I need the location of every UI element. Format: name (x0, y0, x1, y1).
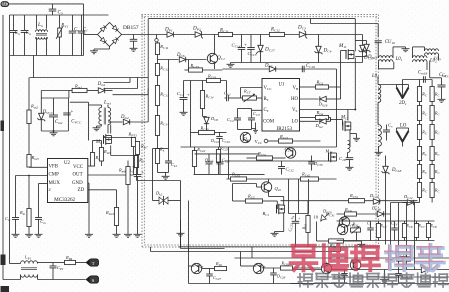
wire GND pin (88, 183, 89, 232)
wire filter to bridge (84, 34, 98, 36)
resistor Rc21 (268, 134, 321, 143)
wire bus 258 (235, 247, 449, 258)
rectifier 2D1 (397, 85, 409, 107)
capacitor CU16 (375, 40, 396, 58)
wire vert 228 (228, 147, 230, 179)
wire corner down (181, 220, 225, 267)
ground bridge (90, 47, 110, 54)
wire bus 146 (181, 146, 337, 148)
svg-text:CVCC: CVCC (71, 120, 82, 125)
capacitor C27 (206, 269, 221, 284)
watermark red text (291, 245, 379, 270)
svg-text:Dm2: Dm2 (120, 115, 129, 120)
capacitor Cvcc (63, 110, 82, 125)
wire bus y68 (223, 69, 337, 147)
svg-text:GND: GND (72, 181, 83, 186)
svg-text:2: 2 (49, 187, 51, 192)
wire bottom bus 251 (151, 247, 341, 252)
capacitor Cm5 (130, 142, 148, 238)
wire column top (403, 76, 433, 98)
wire CT (238, 109, 263, 130)
diode Dc7 (203, 109, 219, 133)
wire bottom mid 283 (189, 266, 337, 284)
resistor RC31 (247, 151, 286, 160)
rectifier LO2 (397, 124, 409, 147)
wire ZD pin (88, 190, 117, 208)
capacitor Cc16 (302, 64, 315, 72)
wire VS (300, 110, 356, 121)
diode Dm2 (108, 115, 148, 125)
svg-text:Cm2: Cm2 (55, 120, 63, 125)
capacitor C1 (78, 15, 88, 56)
diode DG2 (300, 118, 343, 130)
diode Dc19 (369, 193, 380, 204)
svg-text:LO: LO (292, 119, 299, 124)
choke L02 output (378, 103, 381, 147)
wire filter top rail (10, 14, 109, 16)
resistor Rzd (105, 208, 121, 238)
svg-text:VCC: VCC (73, 165, 83, 170)
svg-text:CU16: CU16 (385, 40, 395, 45)
resistor Rc51 (349, 193, 365, 203)
resistor Rk box (153, 147, 178, 201)
wire HV rail (148, 18, 355, 20)
winding aux right (339, 141, 354, 171)
diode Dc5 (264, 63, 276, 71)
wire AC line top (9, 3, 84, 5)
resistor RPA (53, 255, 87, 265)
connector T1 (86, 259, 99, 266)
svg-text:M12: M12 (340, 115, 349, 120)
resistor Rc12 (269, 28, 284, 37)
transistor Qc2 (240, 132, 250, 142)
svg-text:COM: COM (263, 119, 275, 124)
svg-text:DC5: DC5 (264, 63, 273, 68)
zener Dc13 (359, 35, 374, 63)
svg-text:U1: U1 (279, 83, 285, 88)
ground vcc box (50, 130, 58, 136)
resistor Rc16 (207, 74, 221, 83)
wire vert 218b (218, 147, 220, 174)
watermark gray slogan (298, 273, 448, 287)
wires vertical fence (391, 203, 415, 270)
wire vert 180 (137, 181, 185, 247)
wire vert 188 (188, 201, 190, 252)
capacitor Ccc top right (442, 73, 449, 79)
svg-text:2D1: 2D1 (399, 101, 407, 106)
svg-text:DC6: DC6 (176, 53, 185, 58)
capacitor Dc26 (204, 154, 214, 175)
resistor RG2 (300, 110, 331, 121)
choke Ln (36, 15, 48, 56)
svg-text:Cm18: Cm18 (418, 70, 427, 75)
mosfet M13 (325, 149, 337, 163)
wire left edge 2 (9, 56, 11, 264)
ground M12 (350, 134, 360, 142)
resistor RG1 (300, 79, 341, 89)
svg-text:HO: HO (291, 97, 299, 102)
mosfet M12 (340, 109, 356, 148)
diode Dc6 (158, 53, 207, 62)
diode Dc16 (371, 206, 384, 217)
wire y80 (184, 81, 227, 95)
svg-text:MUX: MUX (49, 181, 61, 186)
svg-text:RV1: RV1 (60, 24, 68, 29)
output terminal block (289, 179, 319, 222)
svg-text:S: S (92, 278, 95, 283)
svg-text:Cn: Cn (15, 31, 20, 36)
diode Dp2 (192, 25, 203, 38)
watermark blue outline text (385, 244, 444, 270)
wire bus 200 (281, 200, 418, 202)
svg-text:ZD: ZD (78, 188, 85, 193)
mosfet B1 (263, 204, 285, 217)
wire corner 3 (113, 89, 149, 95)
wire vcc mid (41, 91, 69, 99)
mark bottom left corner (1, 286, 10, 292)
svg-text:L01: L01 (395, 57, 403, 62)
wire bus 213 (337, 213, 391, 215)
resistor RC42 (301, 172, 319, 182)
svg-text:VFB: VFB (49, 164, 59, 169)
wire bus 2205 (337, 220, 435, 222)
ground bottom right (380, 270, 389, 283)
wire vcc2 top (195, 153, 259, 155)
mosfet M1 PFC (95, 125, 137, 156)
zener Dc20 (321, 209, 332, 222)
capacitor Cc41 (338, 270, 348, 284)
ground B1 (269, 197, 284, 237)
capacitor Cc22 (288, 214, 300, 247)
svg-text:DVCC: DVCC (42, 110, 54, 115)
transformer Lm (89, 100, 112, 134)
svg-text:VS: VS (292, 108, 298, 113)
capacitor C3 (49, 4, 63, 15)
terminal Vcc2 (255, 139, 268, 145)
capacitor Cn1 (10, 15, 20, 56)
ground middle (227, 63, 235, 68)
wire HV rail drop (147, 19, 149, 122)
ground U1 (252, 123, 259, 134)
transistor Q21 (285, 147, 296, 159)
optocoupler K1 (337, 223, 348, 235)
capacitor Cc1 left (224, 90, 243, 101)
capacitor Cc12 (278, 161, 294, 175)
capacitor Cc14 (232, 35, 248, 63)
svg-text:C1: C1 (83, 28, 88, 33)
connector AC input (1, 2, 9, 7)
wire vcc top (30, 77, 149, 79)
resistor R27 (263, 261, 321, 271)
wire vcc to transformer (70, 102, 89, 140)
capacitor Cc27 (217, 154, 231, 175)
resistor R32 (376, 221, 386, 241)
bridge rectifier DB157 (98, 23, 139, 47)
transistor Q27 (321, 261, 331, 274)
diode Dp1 (164, 27, 173, 38)
zener Dc15 (355, 41, 377, 61)
resistor column B (430, 80, 440, 203)
wire filter left edge (9, 15, 11, 56)
diode DG1 (300, 96, 341, 107)
wire MUX (39, 184, 48, 218)
wire right drop to filter (83, 4, 85, 15)
pot Rt (243, 89, 263, 103)
resistor Rvcc1 (88, 141, 103, 167)
wire bus 178 (227, 178, 337, 180)
mosfet M11 (338, 19, 355, 110)
transformer LP1 (3, 255, 38, 280)
svg-text:Cn: Cn (26, 31, 31, 36)
capacitor Cp1 (38, 263, 64, 280)
varistor Rv1 (56, 15, 68, 56)
svg-text:+: + (141, 170, 144, 175)
resistor Rm1 (69, 84, 99, 93)
resistor Rc13 (155, 76, 169, 106)
resistor Rm6 (118, 161, 132, 238)
svg-text:CC16: CC16 (306, 64, 315, 69)
zener Dc18 (382, 156, 402, 245)
wire left edge long (2, 15, 4, 280)
wire OUT to gate (88, 174, 134, 176)
resistor Rc22 (192, 147, 205, 174)
capacitor Cn3 (69, 15, 79, 56)
resistor Rsense (134, 156, 144, 181)
svg-text:+: + (71, 110, 74, 115)
transistor Q23 (339, 217, 349, 228)
ground GND pin (85, 233, 93, 238)
vcc box (41, 98, 68, 131)
capacitor Cmux (35, 218, 47, 238)
wire vert 190 (190, 81, 192, 148)
node circle start (155, 35, 158, 42)
zener Dc4 (315, 35, 332, 63)
transistor Q24 (350, 259, 360, 271)
wire bus 276 (321, 276, 449, 278)
resistor R01 (302, 201, 311, 247)
mark left edge 1 (1, 121, 5, 132)
diode Dm1 (97, 82, 113, 93)
capacitor Cc19 (210, 133, 230, 148)
resistor Rc11b (155, 55, 169, 76)
zener Dvcc (37, 110, 53, 121)
svg-text:+: + (187, 92, 190, 97)
svg-text:+: + (292, 214, 295, 219)
transformer T1 secondary A (413, 47, 438, 70)
diac Dk (153, 191, 181, 206)
capacitor Cc15 (247, 35, 256, 63)
pot R31 (351, 222, 361, 234)
ground transformer center (402, 47, 410, 52)
capacitor Cm18 (418, 61, 447, 103)
resistor Rc55 (397, 252, 411, 262)
ground transformer Lm (93, 126, 101, 131)
wire vcc2 bottom (194, 173, 265, 175)
transistor Q22 (261, 179, 281, 197)
ground output mid (375, 147, 383, 156)
svg-text:RC11: RC11 (219, 29, 229, 34)
IC U2 MC33262 (48, 159, 88, 203)
wire Vcc pin U1 (241, 88, 263, 99)
wire chain bottom (157, 136, 159, 149)
wire filter bottom rail (10, 55, 84, 57)
wire CMP (16, 175, 48, 218)
resistor divider R2 (27, 124, 39, 168)
svg-text:MC33262: MC33262 (54, 197, 75, 203)
wire vert 168 (168, 60, 170, 149)
capacitor bridge output (130, 35, 138, 52)
capacitor C28 (270, 268, 285, 284)
capacitor Cc2 (227, 109, 241, 130)
terminal HCC (349, 223, 359, 232)
svg-text:T: T (92, 261, 95, 266)
svg-text:AC: AC (2, 2, 8, 7)
capacitor Cs1 (383, 123, 393, 141)
resistor Rc14 (155, 106, 169, 136)
resistor Rc18 (191, 126, 227, 135)
svg-text:DB157: DB157 (123, 25, 139, 31)
resistor Rc17 (200, 81, 214, 109)
resistor R00 (317, 222, 357, 250)
wire bus 283 (291, 283, 449, 285)
capacitor Dc30 (308, 156, 323, 171)
transistor Q25 (189, 263, 204, 274)
wire corner 2 (104, 78, 138, 89)
svg-text:U2: U2 (64, 161, 70, 166)
capacitor Cm2 (49, 98, 63, 131)
wire filter right edge (83, 15, 85, 56)
label Dc31 (325, 212, 335, 218)
resistor Rc52 (344, 207, 357, 216)
wire rail to transformer (311, 19, 379, 38)
ground Cc17 (180, 111, 188, 116)
wire bus 269 (291, 269, 449, 271)
diode Dc3 (297, 25, 307, 39)
transistor Q26 (241, 252, 266, 274)
svg-text:VCC: VCC (264, 86, 273, 91)
svg-text:RC12: RC12 (270, 28, 280, 33)
resistor R33 (402, 221, 412, 241)
resistor Rmux (19, 176, 33, 238)
mark left edge 2 (1, 255, 6, 266)
wire corner 1 (104, 78, 131, 83)
resistor column A (417, 80, 427, 203)
svg-text:DC15: DC15 (367, 55, 378, 60)
svg-text:CMP: CMP (49, 173, 60, 178)
thyristor Dc17 (256, 35, 275, 63)
wire bottom bus 246 (179, 246, 379, 248)
capacitor C31 (367, 221, 374, 241)
wire middle bottom bus (231, 62, 363, 64)
dashed shield box (142, 15, 379, 248)
svg-text:Cn: Cn (74, 28, 79, 33)
resistor Rvcc2 (93, 141, 112, 167)
svg-text:OUT: OUT (73, 173, 83, 178)
resistor R34 (414, 221, 424, 241)
diode Dc21 (419, 263, 429, 273)
ground Rk box (162, 173, 170, 180)
resistor Rpfc gate (104, 132, 137, 176)
capacitor Cn2 (21, 15, 31, 56)
transformer T1 primary (379, 47, 406, 69)
resistor RC41 (231, 172, 247, 182)
capacitor Cc17 electrolytic (177, 81, 190, 111)
resistor Rc23 (216, 146, 228, 163)
wire bus 240r (337, 240, 435, 242)
choke L01 output (371, 74, 397, 103)
wire B+ rail (122, 34, 363, 36)
capacitor Cc3 (248, 109, 260, 130)
connector S1 (38, 276, 99, 283)
wire bus 160 (225, 160, 331, 162)
wire HO gate (341, 51, 347, 100)
resistor Rc11a (155, 42, 168, 55)
capacitor C32 (391, 221, 398, 241)
resistor Rc15 (185, 60, 223, 73)
capacitor Cc42 (395, 270, 410, 284)
svg-text:RT: RT (264, 97, 270, 102)
diode Dc14 (403, 194, 420, 205)
resistor R35 (426, 221, 436, 241)
resistor Rc1 (218, 29, 232, 37)
IC U1 IR2153 (262, 79, 300, 132)
capacitor Ccmp (5, 216, 20, 237)
wire VFB (29, 166, 48, 168)
resistor RC5 (233, 184, 273, 204)
svg-text:+: + (244, 44, 247, 49)
transformer T1 secondary B (425, 47, 441, 62)
svg-text:IR2153: IR2153 (277, 126, 293, 132)
resistor divider R1 (27, 78, 38, 124)
ground R00 (357, 241, 366, 247)
resistor R26 (202, 261, 227, 271)
svg-text:CT: CT (264, 108, 270, 113)
wire emi to vcc (33, 56, 35, 78)
svg-text:VB: VB (293, 86, 300, 91)
transistor Qc1 (207, 35, 225, 70)
svg-text:LO: LO (400, 124, 407, 129)
svg-text:DC18: DC18 (391, 168, 402, 173)
